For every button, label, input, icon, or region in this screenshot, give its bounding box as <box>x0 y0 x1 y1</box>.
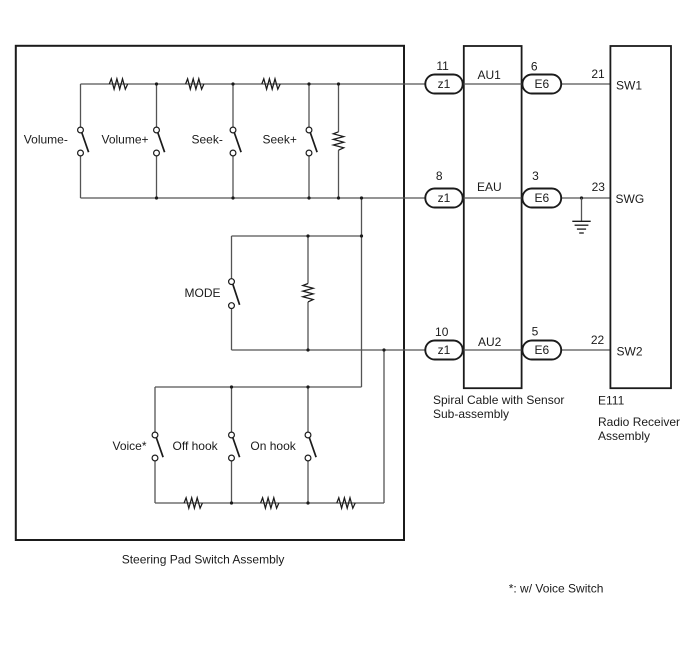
svg-text:6: 6 <box>531 60 538 74</box>
resistor (Voice / Off hook) <box>184 498 202 508</box>
ground (SWG) <box>572 196 590 233</box>
node top bus / Seek+ <box>307 82 310 85</box>
svg-text:E6: E6 <box>534 343 549 357</box>
switch Volume+ <box>154 84 165 198</box>
resistor (MODE shunt) <box>303 236 313 350</box>
node bottom bus / Seek- <box>231 196 234 199</box>
wire EAU row (bottom ladder bus to radio SWG) <box>81 197 610 199</box>
svg-text:SW1: SW1 <box>616 78 642 92</box>
svg-text:23: 23 <box>592 180 606 194</box>
node MODE top bus / resistor <box>306 234 309 237</box>
node lower top bus / On hook <box>306 385 309 388</box>
svg-text:EAU: EAU <box>477 180 502 194</box>
switch Off hook <box>229 387 240 503</box>
svg-text:Seek-: Seek- <box>192 133 223 147</box>
svg-text:11: 11 <box>436 59 449 73</box>
svg-text:MODE: MODE <box>185 286 221 300</box>
node AU2 bus / MODE resistor <box>306 348 309 351</box>
svg-text:Seek+: Seek+ <box>263 133 297 147</box>
resistor (Volume- / Volume+) <box>109 79 127 89</box>
svg-text:E111: E111 <box>598 394 625 408</box>
node lower top bus / Off hook <box>230 385 233 388</box>
svg-text:Spiral Cable with Sensor: Spiral Cable with Sensor <box>433 393 564 407</box>
wire AU1 row (top ladder bus to radio SW1) <box>81 83 610 85</box>
svg-text:AU1: AU1 <box>478 68 502 82</box>
svg-text:On hook: On hook <box>250 439 296 453</box>
wire lower circuit top bus <box>155 386 362 388</box>
node AU2 bus / lower tie <box>382 348 385 351</box>
box E111 Radio Receiver Assembly <box>610 46 671 388</box>
connector z1 pin 11 (AU1) <box>425 75 462 94</box>
box Spiral Cable with Sensor Sub-assembly <box>464 46 522 388</box>
svg-text:SWG: SWG <box>616 192 645 206</box>
node top bus / Seek- <box>231 82 234 85</box>
svg-text:z1: z1 <box>438 191 451 205</box>
svg-text:Volume+: Volume+ <box>102 133 149 147</box>
wire MODE top bus <box>232 235 362 237</box>
node bottom bus / Seek+ <box>307 196 310 199</box>
svg-text:*: w/ Voice Switch: *: w/ Voice Switch <box>509 582 604 596</box>
svg-text:8: 8 <box>436 169 443 183</box>
node MODE top bus / tie line <box>360 234 363 237</box>
box Steering Pad Switch Assembly <box>16 46 404 540</box>
svg-text:Steering Pad Switch Assembly: Steering Pad Switch Assembly <box>122 553 285 567</box>
switch MODE <box>229 236 240 350</box>
svg-text:Radio Receiver: Radio Receiver <box>598 415 680 429</box>
svg-text:Volume-: Volume- <box>24 133 68 147</box>
wire tie AU2 to lower ladder <box>383 350 385 503</box>
svg-text:E6: E6 <box>534 191 549 205</box>
resistor (On hook / tie) <box>337 498 355 508</box>
resistor branch (top ladder shunt) <box>333 84 343 198</box>
resistor (Seek- / Seek+) <box>262 79 280 89</box>
switch Voice* <box>152 387 163 503</box>
node lower bottom bus / Off hook <box>230 501 233 504</box>
resistor (Off hook / On hook) <box>261 498 279 508</box>
svg-text:Assembly: Assembly <box>598 429 650 443</box>
node EAU / tie line <box>360 196 363 199</box>
svg-text:AU2: AU2 <box>478 335 502 349</box>
svg-text:E6: E6 <box>534 77 549 91</box>
caption Radio Receiver Assembly <box>598 415 680 443</box>
svg-text:5: 5 <box>532 325 539 339</box>
node lower bottom bus / On hook <box>306 501 309 504</box>
wire tie EAU to lower circuit <box>361 198 363 387</box>
node bottom bus / Volume+ <box>155 196 158 199</box>
svg-text:SW2: SW2 <box>617 345 643 359</box>
svg-text:Sub-assembly: Sub-assembly <box>433 407 509 421</box>
svg-text:3: 3 <box>532 169 539 183</box>
node top bus / shunt resistor <box>337 82 340 85</box>
node bottom bus / shunt resistor <box>337 196 340 199</box>
connector E6 pin 5 <box>522 341 561 360</box>
switch Volume- <box>78 84 89 198</box>
svg-text:Voice*: Voice* <box>113 439 147 453</box>
svg-text:10: 10 <box>435 325 449 339</box>
connector E6 pin 6 <box>522 75 561 94</box>
svg-text:21: 21 <box>591 67 605 81</box>
svg-text:Off hook: Off hook <box>173 439 219 453</box>
caption Spiral Cable with Sensor Sub-assembly <box>433 393 564 421</box>
switch Seek- <box>230 84 241 198</box>
connector E6 pin 3 <box>522 189 561 208</box>
wire AU2 row (MODE bottom bus to radio SW2) <box>232 349 610 351</box>
node top bus / Volume+ <box>155 82 158 85</box>
svg-text:z1: z1 <box>438 343 451 357</box>
connector z1 pin 10 (AU2) <box>425 341 462 360</box>
wire lower circuit bottom bus <box>155 502 384 504</box>
connector z1 pin 8 (EAU) <box>425 189 462 208</box>
svg-text:z1: z1 <box>438 77 451 91</box>
resistor (Volume+ / Seek-) <box>186 79 204 89</box>
svg-text:22: 22 <box>591 333 605 347</box>
switch Seek+ <box>306 84 317 198</box>
switch On hook <box>305 387 316 503</box>
